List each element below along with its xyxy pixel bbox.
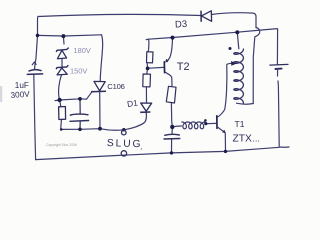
- node slug terminal: [122, 128, 125, 131]
- node transformer polarity dot: [229, 47, 232, 50]
- wire transformer top: [237, 32, 239, 48]
- wire zener top: [62, 36, 65, 44]
- svg-text:150V: 150V: [70, 67, 87, 76]
- transistor T1 NPN ZTX: [217, 116, 226, 133]
- wire battery top: [276, 30, 278, 64]
- wire outer left top: [35, 17, 38, 70]
- node T2 base divider: [146, 67, 150, 71]
- wire T2 emitter: [167, 38, 173, 62]
- svg-text:T2: T2: [177, 61, 190, 73]
- resistor R4 box: [59, 107, 66, 120]
- wire gate node: [55, 99, 87, 101]
- node trigger left corner: [60, 128, 63, 131]
- svg-text:D3: D3: [175, 19, 188, 31]
- capacitor C3 main top plate: [29, 70, 41, 71]
- svg-text:300V: 300V: [10, 90, 30, 100]
- capacitor C2 bottom plate: [164, 138, 180, 141]
- wire C1 top: [79, 99, 81, 114]
- wire T1 collector: [217, 66, 227, 118]
- node zener top: [61, 34, 65, 38]
- wire C1 bottom: [79, 122, 81, 130]
- terminal slug top: [122, 130, 127, 135]
- node T2 emitter: [171, 36, 175, 40]
- wire SCR gate: [87, 91, 93, 99]
- paper smudge left edge: [0, 86, 2, 102]
- wire T2 chain top corner: [147, 39, 150, 52]
- resistor R3 box: [166, 86, 176, 103]
- svg-text:180V: 180V: [74, 46, 91, 55]
- node choke polarity dot: [204, 119, 207, 122]
- capacitor C1 trigger bottom plate: [70, 120, 89, 123]
- wire R3 to node: [170, 103, 173, 127]
- svg-text:T1: T1: [235, 119, 245, 129]
- node cap2 rail: [170, 151, 173, 154]
- node T1 emitter rail: [224, 150, 227, 153]
- wire resistor R4 bottom: [60, 119, 63, 129]
- wire left horizontal: [38, 35, 102, 36]
- inductor L2 base choke: [182, 122, 205, 129]
- node supply transformer: [235, 30, 239, 34]
- node trigger cap bottom: [78, 128, 82, 132]
- node outer left: [36, 34, 40, 38]
- wire T2 collector: [165, 72, 172, 86]
- transformer tap arrowhead: [231, 61, 237, 66]
- wire rail overshoot: [279, 146, 289, 148]
- wire trigger rail: [61, 123, 143, 130]
- wire main bottom rail: [36, 147, 280, 159]
- wire node to choke: [173, 126, 182, 127]
- svg-text:ZTX...: ZTX...: [233, 133, 260, 144]
- wire T1 emitter down: [224, 134, 226, 152]
- capacitor C3 main bottom plate: [27, 73, 42, 76]
- wire cap2 top: [171, 129, 173, 135]
- zener diode Z2 150V: [56, 65, 68, 75]
- diode D3: [201, 11, 212, 22]
- thyristor U1 C106: [91, 81, 106, 91]
- transformer L1 winding: [234, 49, 244, 103]
- wire resistor R4 top: [60, 100, 61, 107]
- wire between zeners: [61, 59, 63, 67]
- wire collector tap: [227, 63, 233, 64]
- wire coil bottom link: [237, 102, 254, 105]
- svg-text:Copyright Stux 2006: Copyright Stux 2006: [46, 143, 77, 147]
- wire hop over supply wire: [253, 28, 260, 104]
- wire between R1 R2: [146, 64, 149, 74]
- battery B1 long plate: [270, 63, 288, 66]
- transistor T2 PNP: [164, 59, 168, 73]
- svg-text:SLUG: SLUG: [107, 138, 143, 150]
- svg-text:1uF: 1uF: [15, 81, 29, 90]
- wire zener bottom: [59, 75, 62, 100]
- capacitor C2 top plate: [165, 133, 180, 136]
- wire battery bottom: [278, 71, 280, 146]
- diode D1: [140, 103, 151, 112]
- terminal slug bottom: [121, 151, 126, 156]
- node SCR cathode: [98, 127, 102, 131]
- wire D3 to hop corner: [212, 13, 257, 28]
- capacitor C1 trigger top plate: [70, 114, 88, 115]
- svg-text:,: ,: [140, 144, 142, 151]
- wire T1 base: [206, 122, 216, 124]
- wire D1 cathode link: [144, 113, 147, 124]
- resistor R2 box: [143, 74, 151, 87]
- wire cap1 bottom to rail: [34, 75, 36, 160]
- battery B1 short plate: [275, 68, 281, 70]
- capacitor C3 polarity tick: [32, 62, 36, 65]
- svg-text:D1: D1: [126, 98, 138, 109]
- wire cap2 bottom: [171, 140, 173, 153]
- resistor R1 box: [147, 52, 154, 63]
- wire top rail: [38, 14, 201, 16]
- wire R2 to D1: [145, 87, 147, 102]
- node gate cap: [78, 97, 82, 101]
- node T1 base network: [170, 125, 174, 129]
- wire supply node line: [146, 29, 277, 40]
- node T1 base blob: [204, 122, 207, 125]
- node gate left: [57, 98, 61, 102]
- zener diode Z1 180V: [56, 48, 68, 59]
- wire T2 base: [149, 66, 164, 69]
- wire C106 anode squiggle: [100, 35, 102, 81]
- wire C106 cathode: [99, 92, 101, 128]
- svg-text:C106: C106: [107, 82, 124, 91]
